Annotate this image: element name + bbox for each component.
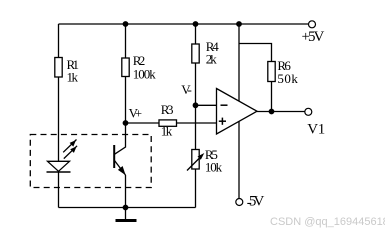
resistor R3 bbox=[159, 120, 177, 126]
svg-text:CSDN @qq_1694456187: CSDN @qq_1694456187 bbox=[270, 216, 385, 228]
terminal V1 bbox=[305, 108, 312, 115]
node V- bbox=[193, 102, 199, 108]
wire top rail +5V bbox=[59, 23, 309, 25]
op-amp minus sign bbox=[221, 104, 228, 106]
wire collector bbox=[115, 123, 126, 154]
wire R5 to bottom rail bbox=[195, 169, 197, 208]
node top rail junction R2 bbox=[123, 21, 129, 27]
wire R4 to node V- bbox=[195, 63, 197, 105]
wire R6 top jog bbox=[239, 44, 272, 62]
resistor R2 bbox=[122, 58, 129, 77]
node top rail junction R4 bbox=[193, 21, 199, 27]
svg-text:1: 1 bbox=[318, 121, 326, 137]
svg-text:V+: V+ bbox=[129, 106, 143, 121]
wire LED to bottom rail bbox=[58, 172, 60, 208]
wire +5V supply pin to op-amp bbox=[238, 24, 240, 101]
svg-text:R3: R3 bbox=[161, 102, 174, 117]
optocoupler dashed box bbox=[30, 135, 151, 188]
wire R1 to LED bbox=[58, 77, 60, 162]
svg-text:50k: 50k bbox=[277, 71, 298, 86]
wire R2 to node V+ bbox=[125, 77, 127, 124]
wire R3 to op-amp non-inverting input bbox=[177, 122, 217, 124]
wire V- down to R5 bbox=[195, 105, 197, 149]
wire R2 branch upper bbox=[125, 24, 127, 58]
resistor R5 bbox=[192, 150, 199, 170]
wire R4 branch upper bbox=[195, 24, 197, 44]
wire op-amp to -5V terminal bbox=[238, 122, 240, 199]
wire left branch upper (top rail to R1) bbox=[58, 24, 60, 58]
light arrow 1 bbox=[63, 140, 76, 153]
svg-text:1k: 1k bbox=[67, 70, 79, 85]
node output R6 bbox=[269, 109, 275, 115]
svg-text:+5V: +5V bbox=[302, 29, 325, 45]
node top rail junction supply bbox=[236, 21, 242, 27]
svg-text:-5V: -5V bbox=[247, 194, 265, 212]
wire emitter to bottom rail bbox=[125, 175, 127, 208]
terminal +5V bbox=[309, 21, 316, 28]
svg-text:V: V bbox=[307, 121, 318, 137]
svg-text:10k: 10k bbox=[205, 160, 223, 175]
node V+ bbox=[123, 120, 129, 126]
resistor R6 bbox=[268, 62, 275, 82]
op-amp plus sign bbox=[219, 118, 226, 125]
transistor Q1 base bar bbox=[113, 145, 115, 168]
resistor R4 bbox=[192, 44, 199, 63]
wire V- to op-amp inverting input bbox=[196, 104, 217, 106]
transistor Q1 emitter bbox=[115, 161, 126, 176]
wire R6 to output bbox=[271, 82, 273, 112]
wire bottom rail bbox=[59, 207, 196, 209]
light arrow 2 bbox=[64, 146, 77, 159]
R5 wiper arrow bbox=[187, 153, 204, 171]
svg-text:100k: 100k bbox=[133, 67, 157, 82]
ground bbox=[116, 208, 137, 221]
resistor R1 bbox=[55, 58, 62, 78]
wire V+ to R3 bbox=[126, 122, 160, 124]
svg-text:V-: V- bbox=[181, 82, 192, 97]
node emitter ground bbox=[123, 205, 129, 211]
LED D1 photodiode bbox=[47, 161, 71, 172]
svg-text:2k: 2k bbox=[206, 52, 218, 67]
wire op-amp output bbox=[257, 111, 305, 113]
terminal -5V bbox=[236, 199, 243, 206]
svg-text:1k: 1k bbox=[161, 124, 173, 139]
op-amp U1 bbox=[217, 89, 258, 135]
